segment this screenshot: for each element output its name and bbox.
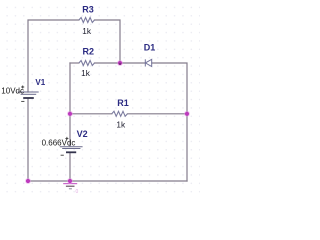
svg-text:R3: R3 (82, 5, 94, 15)
svg-text:R1: R1 (117, 98, 129, 108)
svg-text:V2: V2 (77, 129, 88, 139)
svg-text:V1: V1 (35, 78, 45, 87)
svg-text:0.666Vdc: 0.666Vdc (42, 138, 76, 147)
svg-text:10Vdc: 10Vdc (1, 86, 24, 95)
svg-text:R2: R2 (83, 46, 95, 56)
svg-text:1k: 1k (81, 68, 91, 78)
svg-text:1k: 1k (116, 119, 126, 129)
svg-text:0: 0 (76, 189, 79, 195)
svg-text:1k: 1k (82, 26, 92, 36)
svg-text:D1: D1 (144, 42, 156, 52)
